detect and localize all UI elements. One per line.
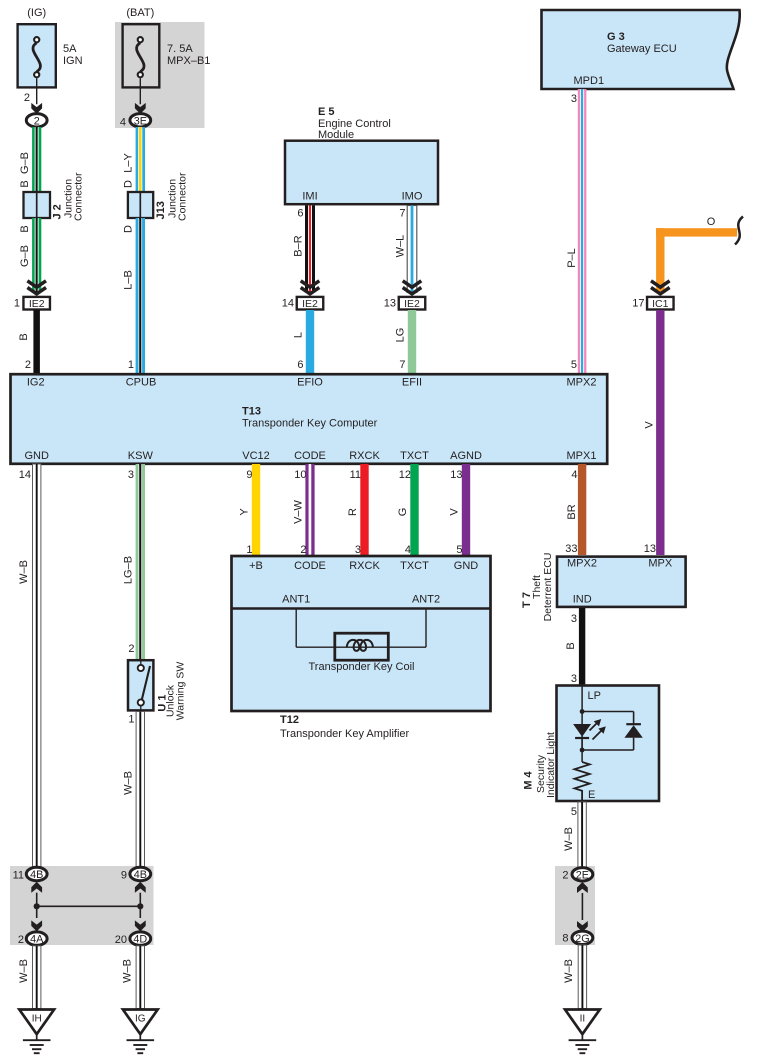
svg-text:(IG): (IG) — [27, 7, 46, 19]
svg-text:W–B: W–B — [563, 959, 575, 983]
svg-text:L: L — [293, 332, 305, 338]
svg-text:D: D — [123, 180, 135, 188]
svg-text:GND: GND — [454, 560, 479, 572]
svg-text:Gateway ECU: Gateway ECU — [607, 43, 677, 55]
svg-text:3: 3 — [571, 93, 577, 105]
svg-text:TXCT: TXCT — [400, 450, 429, 462]
svg-text:Indicator Light: Indicator Light — [545, 732, 557, 798]
svg-text:CPUB: CPUB — [126, 376, 157, 388]
svg-text:W–B: W–B — [123, 771, 135, 795]
svg-text:2: 2 — [562, 870, 568, 882]
svg-text:T12: T12 — [280, 714, 299, 726]
svg-text:1: 1 — [128, 714, 134, 726]
svg-text:3: 3 — [128, 469, 134, 481]
svg-text:RXCK: RXCK — [349, 450, 380, 462]
svg-text:4: 4 — [571, 469, 577, 481]
svg-text:4: 4 — [120, 117, 126, 129]
svg-text:Transponder Key Amplifier: Transponder Key Amplifier — [280, 728, 410, 740]
svg-text:13: 13 — [384, 298, 396, 310]
svg-text:ANT2: ANT2 — [412, 594, 440, 606]
svg-text:Warning SW: Warning SW — [175, 662, 187, 721]
svg-text:1: 1 — [128, 359, 134, 371]
svg-text:P–L: P–L — [566, 248, 578, 268]
svg-text:3: 3 — [571, 673, 577, 685]
svg-text:7: 7 — [399, 208, 405, 220]
svg-text:9: 9 — [246, 469, 252, 481]
svg-text:G 3: G 3 — [607, 31, 625, 43]
svg-text:EFII: EFII — [402, 376, 422, 388]
svg-text:CODE: CODE — [294, 560, 326, 572]
svg-text:RXCK: RXCK — [349, 560, 380, 572]
svg-text:KSW: KSW — [128, 450, 154, 462]
svg-text:1: 1 — [246, 544, 252, 556]
svg-text:B: B — [19, 225, 31, 232]
svg-text:17: 17 — [632, 298, 644, 310]
svg-text:2G: 2G — [575, 933, 589, 945]
svg-text:J13: J13 — [155, 201, 167, 219]
svg-text:14: 14 — [19, 469, 31, 481]
svg-text:L–Y: L–Y — [123, 153, 135, 173]
svg-text:6: 6 — [297, 359, 303, 371]
svg-text:LG–B: LG–B — [123, 556, 135, 584]
svg-text:6: 6 — [297, 208, 303, 220]
svg-text:2E: 2E — [576, 869, 589, 881]
svg-text:O: O — [707, 216, 716, 228]
svg-text:4A: 4A — [30, 934, 44, 946]
svg-text:B: B — [19, 180, 31, 187]
svg-text:MPX1: MPX1 — [567, 450, 597, 462]
svg-text:E: E — [588, 789, 595, 801]
svg-text:IGN: IGN — [63, 55, 83, 67]
svg-text:IG: IG — [135, 1014, 146, 1025]
svg-text:Transponder Key Computer: Transponder Key Computer — [242, 418, 378, 430]
svg-text:Transponder Key Coil: Transponder Key Coil — [309, 661, 415, 673]
svg-text:W–B: W–B — [18, 959, 30, 983]
svg-text:9: 9 — [121, 870, 127, 882]
svg-text:IE2: IE2 — [29, 298, 45, 310]
svg-text:Deterrent ECU: Deterrent ECU — [542, 553, 554, 622]
svg-text:7: 7 — [399, 359, 405, 371]
svg-text:4D: 4D — [133, 934, 147, 946]
svg-text:VC12: VC12 — [242, 450, 270, 462]
svg-text:V–W: V–W — [293, 499, 305, 523]
svg-text:B: B — [18, 333, 30, 340]
svg-text:E 5: E 5 — [318, 106, 335, 118]
svg-text:LG: LG — [395, 328, 407, 343]
svg-text:MPX–B1: MPX–B1 — [167, 55, 210, 67]
svg-text:4B: 4B — [30, 869, 43, 881]
svg-text:8: 8 — [562, 933, 568, 945]
svg-text:(BAT): (BAT) — [126, 7, 154, 19]
svg-text:2: 2 — [24, 92, 30, 104]
svg-text:3: 3 — [571, 613, 577, 625]
svg-text:11: 11 — [13, 870, 24, 882]
svg-text:IE2: IE2 — [404, 298, 420, 310]
svg-text:B–R: B–R — [293, 235, 305, 256]
svg-text:II: II — [580, 1014, 586, 1025]
svg-text:MPD1: MPD1 — [574, 75, 605, 87]
svg-text:W–B: W–B — [18, 560, 30, 584]
svg-text:G–B: G–B — [19, 152, 31, 174]
svg-text:IH: IH — [32, 1014, 42, 1025]
svg-text:MPX2: MPX2 — [567, 558, 597, 570]
svg-text:5: 5 — [456, 544, 462, 556]
svg-text:Module: Module — [318, 129, 354, 141]
svg-text:W–L: W–L — [395, 235, 407, 258]
svg-text:IMI: IMI — [302, 191, 317, 203]
svg-text:IC1: IC1 — [652, 298, 669, 310]
svg-text:AGND: AGND — [450, 450, 482, 462]
svg-text:2: 2 — [18, 934, 24, 946]
svg-text:W–B: W–B — [563, 827, 575, 851]
svg-text:20: 20 — [115, 934, 127, 946]
svg-text:5: 5 — [571, 359, 577, 371]
svg-text:EFIO: EFIO — [297, 376, 323, 388]
svg-text:V: V — [449, 508, 461, 516]
svg-text:R: R — [347, 508, 359, 516]
svg-text:B: B — [565, 642, 577, 649]
svg-text:2: 2 — [300, 544, 306, 556]
svg-text:LP: LP — [588, 690, 601, 702]
svg-text:MPX: MPX — [648, 558, 673, 570]
svg-text:3E: 3E — [134, 115, 147, 127]
svg-text:TXCT: TXCT — [400, 560, 429, 572]
svg-text:D: D — [123, 225, 135, 233]
svg-text:12: 12 — [399, 469, 411, 481]
svg-text:G: G — [397, 508, 409, 517]
svg-text:IMO: IMO — [402, 191, 423, 203]
svg-text:2: 2 — [25, 359, 31, 371]
svg-text:33: 33 — [565, 543, 577, 555]
svg-text:13: 13 — [450, 469, 462, 481]
svg-text:5: 5 — [571, 806, 577, 818]
svg-text:ANT1: ANT1 — [282, 594, 310, 606]
svg-text:IE2: IE2 — [302, 298, 318, 310]
svg-text:V: V — [644, 421, 656, 429]
svg-text:+B: +B — [249, 560, 263, 572]
svg-text:L–B: L–B — [123, 270, 135, 290]
svg-text:IG2: IG2 — [27, 376, 45, 388]
svg-text:M 4: M 4 — [523, 770, 535, 789]
svg-text:4B: 4B — [134, 869, 147, 881]
svg-text:CODE: CODE — [294, 450, 326, 462]
svg-text:1: 1 — [14, 298, 20, 310]
svg-text:Y: Y — [239, 508, 251, 516]
svg-text:14: 14 — [282, 298, 294, 310]
svg-text:11: 11 — [350, 469, 361, 481]
svg-text:IND: IND — [573, 594, 592, 606]
svg-text:10: 10 — [294, 469, 306, 481]
svg-text:Connector: Connector — [177, 172, 189, 221]
svg-text:W–B: W–B — [122, 959, 134, 983]
svg-text:T13: T13 — [242, 406, 261, 418]
svg-text:G–B: G–B — [19, 245, 31, 267]
svg-text:7. 5A: 7. 5A — [167, 43, 193, 55]
svg-text:BR: BR — [566, 504, 578, 519]
svg-text:13: 13 — [644, 543, 656, 555]
svg-text:3: 3 — [355, 544, 361, 556]
svg-text:2: 2 — [128, 643, 134, 655]
svg-text:5A: 5A — [63, 43, 77, 55]
svg-text:2: 2 — [34, 115, 40, 127]
svg-text:GND: GND — [24, 450, 49, 462]
svg-text:4: 4 — [405, 544, 411, 556]
svg-text:MPX2: MPX2 — [567, 376, 597, 388]
svg-text:Connector: Connector — [73, 172, 85, 221]
